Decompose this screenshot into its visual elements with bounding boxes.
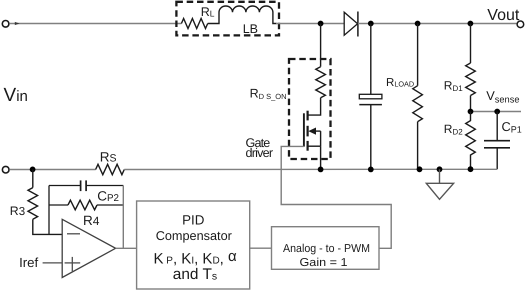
block PID compensator — [137, 201, 250, 289]
current arrow on input wire — [15, 22, 20, 25]
svg-text:Vin: Vin — [4, 85, 28, 106]
svg-text:RS: RS — [100, 150, 117, 165]
resistor R4 — [49, 200, 123, 210]
ground — [426, 169, 453, 199]
svg-text:Analog - to - PWM: Analog - to - PWM — [283, 243, 370, 255]
resistor RD2 — [466, 112, 476, 170]
dashed box RL-LB — [176, 2, 279, 36]
svg-text:driver: driver — [246, 146, 274, 160]
wire Iref lead — [43, 262, 63, 264]
wire top rail mid — [276, 23, 344, 25]
terminal Vin+ (top-left) — [2, 21, 9, 28]
wire feedback right vertical — [122, 186, 124, 249]
node dot top at output cap — [368, 21, 374, 27]
node dot top at MOSFET branch — [318, 21, 324, 27]
wire top rail left — [9, 23, 181, 25]
op-amp U1 — [62, 219, 115, 277]
svg-text:Iref: Iref — [19, 255, 38, 270]
svg-text:Gain = 1: Gain = 1 — [300, 257, 348, 269]
svg-text:R3: R3 — [10, 204, 25, 218]
node dot bottom at R3 tap — [30, 167, 36, 173]
svg-text:and Ts: and Ts — [173, 266, 217, 283]
node dot bottom at RD2 — [468, 166, 474, 172]
svg-text:R4: R4 — [83, 213, 100, 228]
svg-text:Compensator: Compensator — [156, 229, 233, 243]
node dot Vsense-CP1 — [494, 109, 500, 115]
wire gate lead — [281, 146, 391, 248]
svg-text:Vout: Vout — [487, 7, 520, 24]
wire top rail right — [358, 23, 517, 25]
resistor RD1 — [466, 24, 476, 112]
node dot RD1-RD2 junction — [468, 109, 474, 115]
wire Vsense line — [471, 111, 522, 113]
wire resistor to drain — [308, 98, 321, 115]
capacitor CP1 — [484, 112, 510, 170]
svg-text:RLOAD: RLOAD — [386, 77, 414, 89]
diode D1 — [344, 12, 358, 37]
wire drain dropper — [320, 24, 322, 67]
node dot top at RLOAD — [415, 21, 421, 27]
resistor RLOAD — [413, 24, 423, 170]
wire bottom rail left — [9, 169, 95, 171]
terminal Vin- (bottom-left) — [2, 166, 9, 173]
svg-text:LB: LB — [243, 22, 258, 36]
node dot bottom at RLOAD — [417, 166, 423, 172]
resistor Rs — [96, 164, 125, 174]
transistor Q1 MOSFET — [304, 111, 321, 151]
node dot bottom at MOSFET source — [318, 167, 324, 173]
resistor RL — [181, 19, 207, 29]
capacitor CP2 — [49, 180, 123, 191]
resistor RDS_ON — [316, 67, 326, 98]
inductor LB — [208, 6, 277, 24]
wire source to bottom rail — [320, 146, 322, 169]
wire bottom rail right — [124, 168, 497, 170]
node dot bottom at output cap — [368, 167, 374, 173]
dashed box RDS_ON — [289, 59, 331, 159]
resistor R3 — [28, 169, 62, 234]
svg-text:PID: PID — [182, 212, 205, 227]
capacitor Cout — [359, 24, 382, 170]
block Analog-to-PWM — [272, 227, 380, 270]
node dot top at RD1 — [468, 21, 474, 27]
wire op-amp output — [116, 247, 137, 249]
node dot bottom at ground — [437, 166, 443, 172]
wire PID to PWM — [250, 247, 272, 249]
wire feedback left vertical — [48, 186, 50, 235]
terminal Vout — [517, 21, 524, 28]
